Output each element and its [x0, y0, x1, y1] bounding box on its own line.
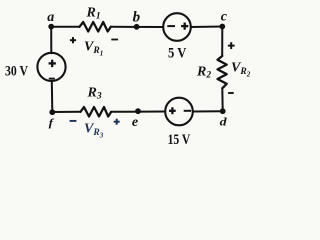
voltage source 30V [37, 53, 65, 81]
node c [219, 10, 227, 30]
polarity minus of V_R2 [228, 92, 234, 94]
voltage source 5V [163, 13, 191, 41]
voltage source 15V [165, 98, 193, 126]
5V source minus sign [167, 25, 175, 27]
wire 30V source to node f [51, 81, 54, 112]
wire R1 to 5V source [111, 26, 163, 28]
svg-text:R2: R2 [196, 65, 211, 81]
15V source plus sign [169, 107, 176, 114]
svg-text:R1: R1 [86, 6, 101, 22]
wire R2 to node d [221, 88, 223, 111]
polarity minus of V_R3 [70, 120, 77, 122]
svg-text:30 V: 30 V [5, 63, 28, 79]
wire node f to R3 [52, 111, 80, 113]
wire 15V source to node d [193, 110, 223, 112]
svg-text:VR3: VR3 [84, 122, 104, 140]
svg-text:b: b [133, 9, 141, 25]
polarity plus of V_R1 [70, 37, 76, 43]
node a [47, 10, 54, 30]
polarity plus of V_R2 [228, 42, 235, 49]
polarity plus of V_R3 [114, 119, 120, 125]
svg-text:R3: R3 [87, 86, 102, 102]
resistor R2 [218, 56, 227, 88]
wire 5V source to node c [191, 26, 223, 29]
node f [49, 109, 56, 128]
svg-text:d: d [220, 116, 228, 129]
15V source minus sign [184, 110, 191, 112]
wire R3 to 15V source [111, 111, 165, 113]
5V source plus sign [181, 23, 188, 30]
svg-text:c: c [221, 10, 228, 25]
svg-text:5 V: 5 V [168, 46, 187, 62]
resistor R1 [80, 22, 111, 32]
node e [132, 108, 141, 130]
node b [133, 9, 141, 29]
svg-text:e: e [132, 115, 138, 130]
wire node a down to 30V source [50, 27, 52, 54]
wire node c down to R2 [221, 27, 223, 57]
svg-text:a: a [47, 10, 54, 25]
30V source plus sign [49, 60, 56, 67]
svg-text:15 V: 15 V [168, 132, 191, 148]
wire a to R1 [51, 26, 80, 28]
node d [220, 108, 228, 128]
30V source minus sign [49, 78, 55, 80]
svg-text:VR2: VR2 [231, 61, 251, 79]
svg-text:f: f [49, 116, 56, 128]
polarity minus of V_R1 [111, 39, 118, 41]
svg-text:VR1: VR1 [84, 40, 103, 58]
resistor R3 [81, 107, 112, 117]
